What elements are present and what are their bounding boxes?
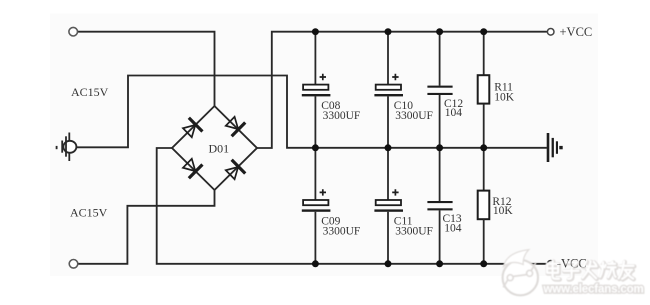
bridge D01 diamond — [172, 106, 257, 190]
svg-text:3300UF: 3300UF — [395, 225, 433, 237]
wire ground mid rail — [313, 147, 547, 149]
resistor R11 — [478, 32, 515, 148]
schematic canvas background — [50, 14, 598, 277]
junction dots mid rail — [312, 144, 487, 151]
svg-text:10K: 10K — [494, 91, 515, 103]
svg-text:+VCC: +VCC — [560, 25, 593, 39]
terminal AC2 bottom-left — [69, 260, 78, 269]
ground symbol right — [547, 133, 563, 162]
svg-text:-VCC: -VCC — [557, 257, 587, 271]
wire +VCC: bridge right vertex up and across top rail — [257, 32, 548, 148]
svg-text:D01: D01 — [209, 142, 230, 156]
svg-text:www.elecfans.com: www.elecfans.com — [543, 284, 644, 296]
svg-text:3300UF: 3300UF — [323, 225, 361, 237]
junction dots bottom rail — [312, 260, 487, 267]
svg-text:104: 104 — [445, 107, 463, 119]
wire center-tap: left terminal up and across to ground rail — [76, 76, 313, 148]
wire AC1: top-left terminal to bridge top vertex — [77, 32, 214, 106]
terminal center-tap with earth marks — [57, 133, 77, 162]
junction dots top rail — [312, 28, 487, 35]
capacitor C13 — [427, 148, 462, 264]
wire -VCC: bridge left vertex down and across bottom rail — [157, 148, 548, 264]
capacitor C11 — [374, 148, 433, 264]
resistor R12 — [478, 148, 514, 264]
svg-text:104: 104 — [444, 222, 462, 234]
diode D01 bottom-right — [223, 160, 245, 182]
terminal AC1 top-left — [69, 27, 78, 36]
capacitor C09 — [302, 148, 361, 264]
svg-text:10K: 10K — [493, 205, 514, 217]
capacitor C08 — [302, 32, 361, 148]
terminal -VCC — [547, 261, 554, 268]
watermark logo circle — [503, 250, 538, 296]
terminal +VCC — [547, 29, 554, 36]
svg-text:3300UF: 3300UF — [395, 110, 433, 122]
svg-text:AC15V: AC15V — [71, 85, 109, 99]
diode D01 bottom-left — [181, 156, 203, 178]
svg-text:3300UF: 3300UF — [323, 110, 361, 122]
diode D01 top-left — [181, 118, 203, 140]
watermark chinese characters — [547, 261, 634, 280]
svg-text:AC15V: AC15V — [70, 206, 108, 220]
capacitor C10 — [374, 32, 433, 148]
diode D01 top-right — [223, 114, 245, 136]
wire AC2: bottom-left terminal to bridge bottom vertex — [78, 190, 215, 264]
capacitor C12 — [427, 32, 463, 148]
